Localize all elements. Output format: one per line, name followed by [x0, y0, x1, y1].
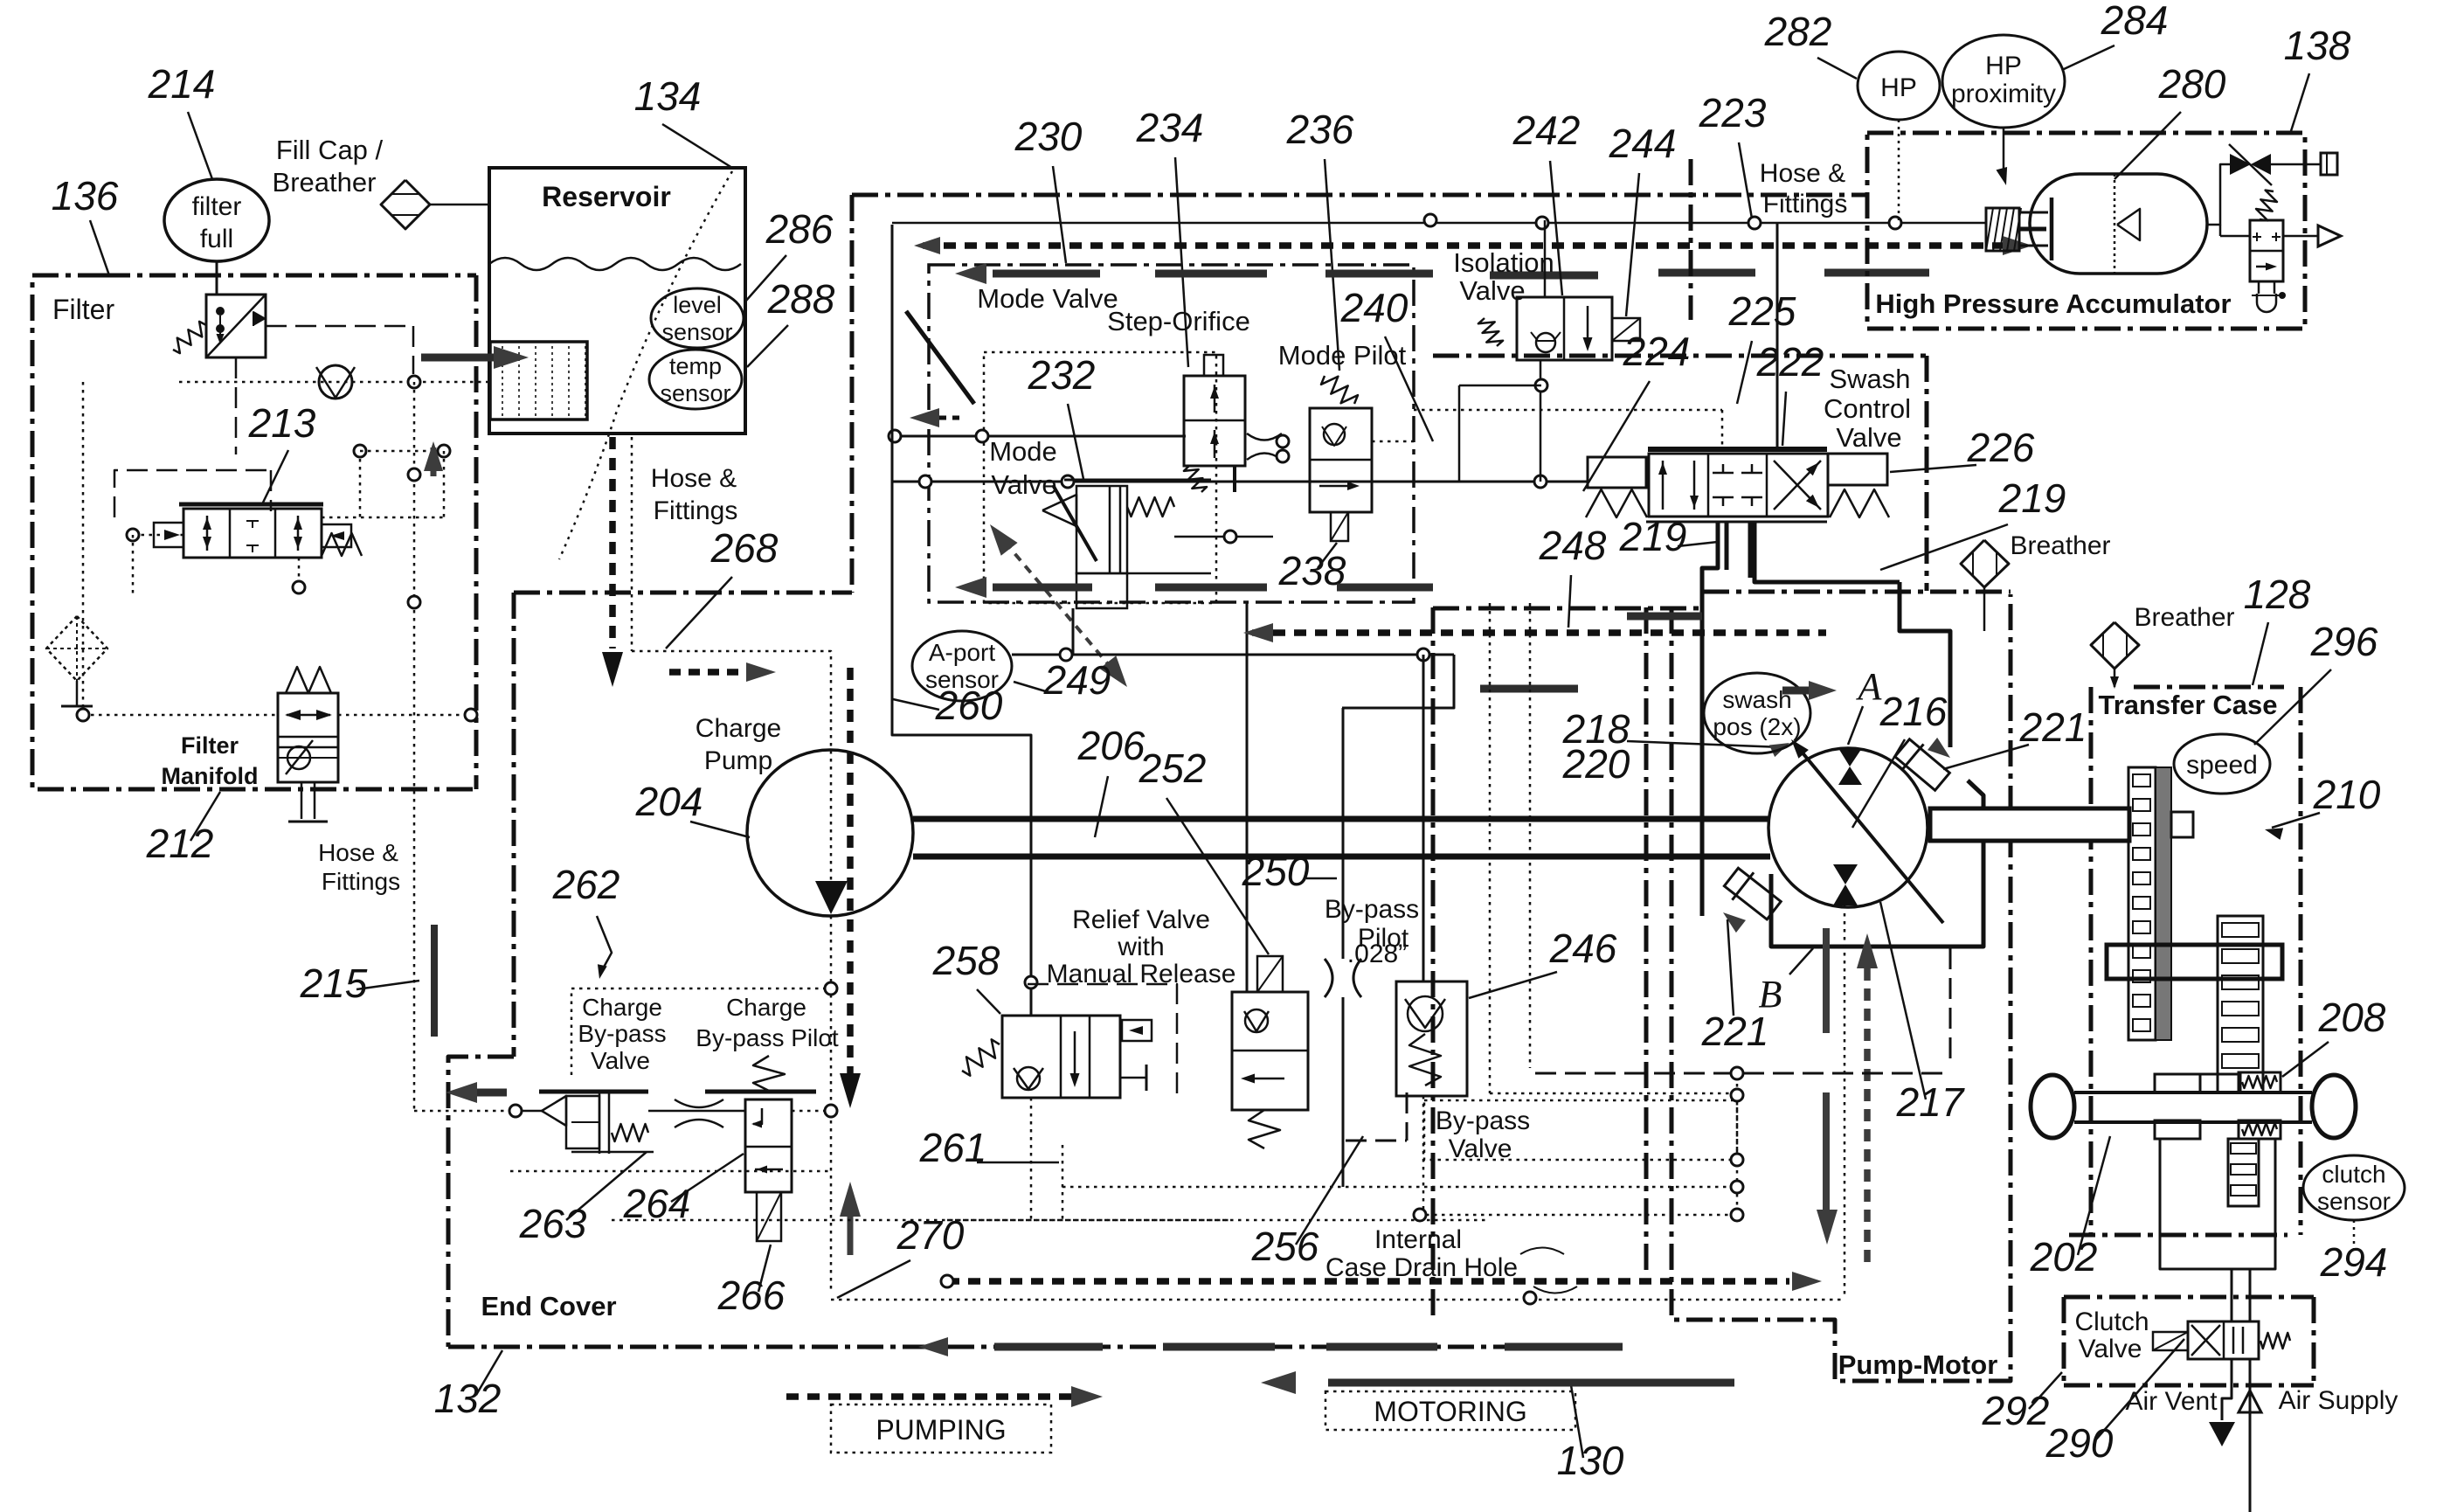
throttle symbol X [675, 1099, 723, 1127]
leader 258 [977, 989, 1000, 1014]
valve 213 left pilot box [154, 523, 183, 547]
label 217 [1896, 1079, 1965, 1125]
label 248 [1539, 523, 1607, 568]
svg-text:HP: HP [1985, 52, 2022, 80]
svg-text:284: 284 [2101, 0, 2169, 43]
accumulator 280 capsule [2030, 174, 2207, 274]
label 219 left [1619, 514, 1687, 559]
leader 256 [1296, 1136, 1363, 1245]
leader 260 [893, 699, 939, 710]
end cover bottom edge [448, 1345, 1627, 1349]
label Pump-Motor [1838, 1349, 1998, 1380]
svg-text:219: 219 [1619, 514, 1687, 559]
label 246 [1549, 926, 1617, 971]
reservoir fluid wavy line [489, 258, 741, 270]
dotted below 258 [1030, 1098, 1033, 1220]
air supply wire [2239, 1359, 2261, 1512]
label 234 [1136, 105, 1204, 150]
dotted box 268 [632, 651, 831, 1294]
gray diag arrows 232 [990, 524, 1127, 687]
dotted wires right net [1062, 603, 1743, 1304]
label 206 [1077, 723, 1145, 768]
swash diag arrow [1791, 739, 1943, 923]
wire valve down (dashed) [235, 357, 238, 454]
260 wire (solid box) [892, 225, 1037, 1016]
charge pump 204 circle [747, 750, 913, 916]
label 221 lower [1701, 1009, 1769, 1054]
step orifice X right [1247, 433, 1289, 462]
svg-text:210: 210 [2313, 772, 2381, 817]
leader 219 left [1678, 542, 1718, 546]
A-port wire y749 [1012, 648, 1454, 661]
label 218 [1562, 706, 1630, 752]
svg-text:End Cover: End Cover [481, 1291, 616, 1321]
wire HP down [1898, 120, 1900, 220]
label Hose & Fittings (right) [1760, 159, 1848, 218]
swash control valve 222 [1646, 449, 1828, 522]
wire acc relief right vent [2283, 225, 2341, 246]
svg-text:speed: speed [2186, 751, 2258, 780]
label 136 [52, 173, 119, 218]
label Clutch Valve [2074, 1307, 2149, 1363]
label Breather (pump) [2010, 531, 2110, 560]
svg-text:130: 130 [1557, 1438, 1624, 1483]
label 252 [1139, 746, 1207, 791]
leader 232 [1068, 404, 1083, 479]
wire x1233 down [1076, 608, 1078, 655]
step orifice valve 234 [1184, 355, 1245, 492]
step orifice dotted box [984, 352, 1216, 603]
label 266 [717, 1273, 786, 1318]
label 226 [1967, 425, 2035, 470]
label 214 [148, 61, 216, 107]
svg-text:Hose &: Hose & [1760, 159, 1845, 188]
sensor bubble swash pos [1704, 673, 1810, 753]
leader 264 [671, 1154, 744, 1202]
svg-text:Breather: Breather [2134, 603, 2234, 632]
label Filter [52, 294, 114, 325]
label Transfer Case [2098, 690, 2277, 720]
label 294 [2320, 1239, 2388, 1285]
label 258 [932, 938, 1000, 983]
label 260 [935, 683, 1003, 728]
svg-text:High Pressure Accumulator: High Pressure Accumulator [1875, 288, 2231, 319]
label Relief Valve with Manual Release [1047, 905, 1236, 988]
svg-text:By-pass: By-pass [1436, 1106, 1530, 1135]
svg-text:Control: Control [1824, 393, 1911, 424]
wire pilot dotted [1372, 440, 1414, 443]
svg-text:216: 216 [1879, 689, 1948, 734]
lower 221 plug [1720, 864, 1784, 933]
svg-text:full: full [200, 225, 233, 253]
svg-text:268: 268 [710, 525, 779, 571]
label 213 [248, 400, 316, 446]
svg-text:Breather: Breather [2010, 531, 2110, 560]
isolation valve 242 [1478, 297, 1640, 360]
label By-pass Pilot [1325, 895, 1419, 953]
wire 246 drop x1629 [1422, 655, 1425, 981]
leader 226 [1890, 465, 1976, 472]
clutch housing [2160, 1139, 2275, 1269]
dotted wire x2111 [1844, 905, 1846, 1298]
wire swash drop x2034 [1776, 223, 1779, 447]
svg-text:filter: filter [192, 192, 242, 221]
leader 240 [1385, 336, 1433, 441]
pump motor circle [1768, 748, 1928, 907]
svg-text:Internal: Internal [1374, 1225, 1462, 1254]
svg-text:PUMPING: PUMPING [876, 1414, 1006, 1446]
svg-text:Valve: Valve [2079, 1335, 2142, 1363]
svg-text:Mode: Mode [989, 436, 1057, 467]
leader 224 [1583, 381, 1650, 491]
mode valve 232 symbol [1042, 480, 1273, 608]
label 244 [1609, 121, 1677, 166]
svg-text:286: 286 [765, 206, 834, 252]
leader 221 lower [1727, 919, 1734, 1016]
svg-text:292: 292 [1982, 1388, 2050, 1433]
leader 284 [2062, 45, 2114, 70]
leader 134 [662, 124, 732, 168]
wire acc relief left [2220, 235, 2250, 238]
end cover left edge [448, 593, 514, 1347]
center boundary left edge x975 [850, 195, 855, 593]
label Internal Case Drain Hole [1325, 1225, 1518, 1282]
axle [2031, 1072, 2356, 1139]
svg-text:217: 217 [1896, 1079, 1965, 1125]
svg-text:225: 225 [1728, 288, 1796, 334]
leader 290 [2095, 1339, 2184, 1440]
label By-pass Valve [1436, 1106, 1530, 1163]
label End Cover [481, 1291, 616, 1321]
label 210 [2313, 772, 2381, 817]
sensor bubble HP [1858, 52, 1940, 120]
heavy dashed wire x973 [840, 668, 861, 1108]
label Swash Control Valve [1824, 364, 1911, 453]
needle valve [2229, 144, 2272, 185]
leader 266 [758, 1245, 771, 1292]
svg-text:213: 213 [248, 400, 316, 446]
svg-text:sensor: sensor [661, 319, 732, 345]
thick left arrow near 263 [446, 1082, 507, 1103]
svg-text:290: 290 [2045, 1420, 2114, 1466]
gear2 lower shaft [2228, 1139, 2259, 1206]
leader 136 [90, 220, 109, 275]
pump motor box (dash-dot) [1433, 356, 2011, 1381]
swash valve right cap [1828, 454, 1889, 517]
svg-text:232: 232 [1028, 352, 1096, 398]
gray up arrow at x496 [424, 441, 443, 476]
leader 288 [747, 325, 788, 367]
wires clutch down [2232, 1269, 2250, 1321]
filter bypass valve (top) [206, 295, 266, 357]
charge bypass dotted box [510, 982, 1232, 1220]
svg-text:Valve: Valve [591, 1047, 650, 1074]
label Charge By-pass Valve [578, 994, 666, 1074]
dotted 261 box [947, 1145, 1485, 1220]
wire needle to plug [2271, 163, 2321, 166]
bypass valve 246 [1396, 981, 1467, 1215]
label Filter Manifold [162, 732, 259, 789]
svg-text:260: 260 [935, 683, 1003, 728]
leader 263 [566, 1152, 647, 1220]
filter assembly box 136 (dash-dot) [32, 275, 476, 789]
svg-text:288: 288 [767, 276, 835, 322]
svg-text:A: A [1856, 665, 1883, 708]
label High Pressure Accumulator [1875, 288, 2231, 319]
svg-text:294: 294 [2320, 1239, 2388, 1285]
breather diamond (pump) [1961, 540, 2009, 587]
svg-text:128: 128 [2244, 572, 2311, 617]
mode box 230 (dash-dot) [929, 265, 1414, 602]
wire filter-full to valve [216, 261, 218, 295]
gray up arrow x973 lower [840, 1182, 861, 1255]
label 249 [1043, 657, 1111, 703]
label 225 [1728, 288, 1796, 334]
wire shaft upper [913, 816, 1770, 822]
svg-text:Transfer Case: Transfer Case [2098, 690, 2277, 720]
leader 280 [2114, 112, 2181, 179]
label Step-Orifice [1107, 306, 1250, 336]
svg-text:264: 264 [623, 1181, 691, 1226]
A bowtie [1838, 748, 1862, 785]
main wire 223 y255 [892, 214, 1986, 229]
check valve to reservoir [316, 365, 355, 399]
leader 294 dotted [2353, 1220, 2356, 1252]
wire A down staircase [1342, 655, 1454, 708]
label 212 [146, 821, 214, 866]
thick bar 215 [431, 925, 438, 1037]
svg-text:236: 236 [1286, 107, 1354, 152]
squiggle marks [1520, 1248, 1577, 1294]
leader 208 [2282, 1042, 2329, 1077]
valve 213 spring right [322, 524, 362, 556]
gear 1 (big) [2128, 767, 2171, 1040]
svg-text:Breather: Breather [273, 167, 377, 198]
svg-text:Air Vent: Air Vent [2125, 1387, 2218, 1416]
label Charge Pump [696, 714, 781, 775]
label Hose & Fittings (filter) [318, 839, 400, 895]
svg-text:132: 132 [434, 1376, 502, 1421]
svg-text:Relief Valve: Relief Valve [1072, 905, 1210, 934]
leader 282 [1817, 58, 1857, 79]
gear 2 (small) [2218, 916, 2263, 1092]
charge pump out triangle [815, 881, 848, 914]
flow arrows row y1541 [918, 1337, 1623, 1356]
leader 242 [1550, 161, 1562, 295]
leader 262 [597, 916, 612, 979]
wire 232 down to A-port [1072, 608, 1075, 655]
label 138 [2284, 23, 2351, 68]
plug fitting [2321, 153, 2337, 175]
motoring arrow [1261, 1371, 1734, 1394]
label 236 [1286, 107, 1354, 152]
svg-text:Air Supply: Air Supply [2279, 1386, 2398, 1415]
leader 214 [188, 112, 212, 179]
svg-text:Fill Cap /: Fill Cap / [276, 135, 384, 165]
label 130 [1557, 1438, 1624, 1483]
leader 130 [1571, 1385, 1583, 1458]
gray flow bar B down [1817, 928, 1838, 1245]
dotted bottom wire y1487 [831, 1299, 1845, 1301]
leader 217 [1880, 902, 1926, 1099]
leader 248 [1568, 575, 1571, 628]
charge bypass pilot valve 264 [705, 1056, 816, 1241]
svg-text:Hose &: Hose & [318, 839, 398, 866]
clutch valve box (dash-dot) [2064, 1297, 2314, 1385]
leader 138 [2291, 73, 2309, 131]
label Isolation Valve [1453, 247, 1554, 306]
dotted wire y437 [179, 376, 489, 388]
B bowtie [1833, 864, 1858, 905]
label 223 [1699, 90, 1767, 135]
pumping box [831, 1404, 1051, 1453]
svg-text:Charge: Charge [726, 994, 806, 1021]
sensor bubble HP proximity [1942, 35, 2065, 128]
reservoir 134 [489, 168, 745, 433]
wire dotted into 263 [414, 1105, 542, 1117]
label 296 [2310, 619, 2378, 664]
label 132 [434, 1376, 502, 1421]
accumulator piston [1986, 198, 2052, 260]
leader 210 [2265, 813, 2320, 840]
svg-text:swash: swash [1722, 686, 1791, 713]
label 286 [765, 206, 834, 252]
svg-text:level: level [673, 292, 722, 318]
wire isolation bottom [1459, 360, 1547, 482]
label 250 [1242, 849, 1337, 894]
svg-text:221: 221 [1701, 1009, 1769, 1054]
swash valve left cap [1586, 457, 1647, 517]
leader B [1789, 948, 1813, 974]
main wire y551 [892, 475, 1588, 488]
bypass pilot valve 250 [1232, 956, 1308, 1148]
svg-text:Filter: Filter [52, 294, 114, 325]
svg-text:Pump-Motor: Pump-Motor [1838, 1349, 1998, 1380]
svg-text:266: 266 [717, 1273, 786, 1318]
label 290 [2045, 1420, 2114, 1466]
label Breather (tc) [2134, 603, 2234, 632]
svg-text:263: 263 [519, 1201, 587, 1246]
svg-text:Case Drain Hole: Case Drain Hole [1325, 1253, 1518, 1282]
svg-text:Fittings: Fittings [322, 868, 400, 895]
label 128 [2244, 572, 2311, 617]
pumping dashed arrow [786, 1386, 1103, 1407]
acc relief spring [2256, 191, 2277, 221]
dashed wire valve to reservoir [266, 326, 413, 374]
svg-text:220: 220 [1562, 741, 1630, 787]
svg-text:244: 244 [1609, 121, 1677, 166]
svg-text:Clutch: Clutch [2074, 1307, 2149, 1336]
accumulator gas triangle [2117, 209, 2140, 240]
wire y499 [889, 430, 1186, 442]
leader 206 [1095, 776, 1108, 837]
accumulator box 138 (dash-dot) [1867, 133, 2305, 329]
svg-text:226: 226 [1967, 425, 2035, 470]
orifice )( symbol [1325, 959, 1361, 997]
sensor bubble clutch sensor [2303, 1155, 2405, 1220]
svg-text:238: 238 [1278, 548, 1346, 593]
svg-text:221: 221 [2019, 704, 2087, 750]
svg-text:Fittings: Fittings [1763, 190, 1848, 218]
label Hose & Fittings (below reservoir) [651, 464, 738, 525]
label 238 [1278, 548, 1346, 593]
leader 230 [1053, 166, 1066, 263]
acc relief valve [2250, 220, 2283, 281]
wire HP proximity down [1997, 128, 2008, 185]
label 230 [1014, 114, 1083, 159]
svg-text:249: 249 [1043, 657, 1111, 703]
svg-text:250: 250 [1242, 849, 1310, 894]
charge bypass valve 263 [539, 1091, 654, 1154]
label B [1759, 973, 1782, 1016]
svg-text:clutch: clutch [2322, 1161, 2385, 1188]
svg-text:MOTORING: MOTORING [1374, 1396, 1526, 1427]
leader 234 [1175, 157, 1188, 367]
leader 236 [1325, 159, 1339, 371]
leader 223 [1739, 142, 1752, 218]
svg-text:280: 280 [2158, 61, 2226, 107]
svg-text:208: 208 [2318, 995, 2386, 1040]
svg-text:296: 296 [2310, 619, 2378, 664]
label 202 [2030, 1234, 2098, 1280]
motoring box [1325, 1391, 1575, 1430]
label Air Supply [2279, 1386, 2398, 1415]
svg-text:248: 248 [1539, 523, 1607, 568]
svg-text:Pump: Pump [704, 746, 772, 775]
svg-text:Manifold: Manifold [162, 763, 259, 789]
center boundary top edge [852, 193, 1867, 198]
leader 213 [262, 450, 288, 504]
svg-text:Reservoir: Reservoir [542, 181, 671, 212]
dashed arrow inside end cover [669, 662, 776, 682]
wire isolation top [1544, 220, 1547, 297]
left arrow y478 [910, 408, 966, 427]
svg-text:134: 134 [634, 73, 702, 119]
label Mode Valve (inner) [989, 436, 1057, 500]
label A [1856, 665, 1883, 708]
label 232 [1028, 352, 1096, 398]
leader 222 [1782, 392, 1786, 446]
svg-text:Fittings: Fittings [654, 496, 738, 525]
sensor bubble: filter full [164, 179, 269, 261]
leader 132 [476, 1350, 502, 1395]
upper 221 plug [1892, 735, 1953, 794]
reservoir dotted curve [559, 171, 732, 559]
svg-text:By-pass Pilot: By-pass Pilot [696, 1024, 839, 1051]
svg-text:223: 223 [1699, 90, 1767, 135]
svg-text:136: 136 [52, 173, 119, 218]
pilot dash lines 213 area [114, 470, 271, 517]
dashed box 258 [1028, 984, 1177, 1101]
leader 296 [2254, 669, 2331, 745]
wire orifice drop x1537 [1342, 708, 1345, 1187]
leader 204 [690, 822, 750, 837]
svg-text:282: 282 [1764, 9, 1832, 54]
svg-text:Valve: Valve [991, 469, 1056, 500]
dotted wire reservoir down x723 [631, 437, 633, 651]
svg-text:246: 246 [1549, 926, 1617, 971]
relief valve 258 [962, 1016, 1152, 1098]
svg-text:234: 234 [1136, 105, 1204, 150]
svg-text:Mode Pilot: Mode Pilot [1278, 340, 1407, 371]
label 208 [2318, 995, 2386, 1040]
leader 268 [666, 577, 732, 648]
wire 263 to 264 [648, 1110, 745, 1113]
svg-text:A-port: A-port [929, 639, 995, 666]
breather diamond (tc) [2091, 622, 2139, 669]
svg-text:Charge: Charge [582, 994, 662, 1021]
svg-text:240: 240 [1340, 285, 1408, 330]
